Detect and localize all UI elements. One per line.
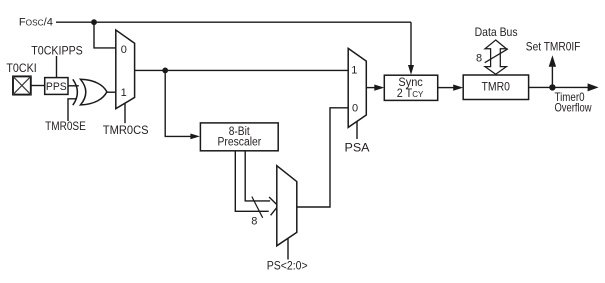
data bus double arrow [485, 40, 506, 74]
arrowhead into sync top [408, 65, 414, 75]
mux TMR0CS [116, 30, 135, 109]
box 8-bit prescaler [200, 123, 278, 151]
wire T0CKI pad to PPS [31, 85, 45, 87]
box PPS [45, 78, 68, 95]
wire Sync to TMR0 [438, 87, 454, 89]
mux PS [277, 166, 297, 246]
svg-text:PPS: PPS [46, 81, 67, 93]
junction dot Fosc [91, 19, 97, 25]
svg-text:Data Bus: Data Bus [475, 25, 518, 39]
arrowhead set TMR0IF up [549, 55, 556, 66]
junction dot mux1 output [162, 68, 168, 74]
bus slash 8 [252, 197, 263, 218]
pin pad T0CKI [13, 76, 31, 94]
arrowhead into TMR0 [453, 85, 463, 91]
open arrowhead bus into PS mux [269, 197, 278, 215]
wire Fosc junction down to mux input 0 [94, 22, 116, 48]
svg-text:Overflow: Overflow [555, 101, 592, 115]
wire PSA output to Sync [366, 87, 375, 89]
wire PS mux leader [287, 239, 289, 260]
wire PSA mux leader [356, 121, 358, 140]
svg-text:TMR0: TMR0 [482, 80, 511, 94]
wire mux TMR0CS leader [124, 102, 126, 124]
wire junction down to prescaler [165, 70, 190, 136]
svg-text:8: 8 [476, 53, 482, 65]
xor gate U1 [73, 79, 107, 105]
arrowhead timer0 overflow [588, 83, 599, 91]
svg-text:0: 0 [352, 103, 358, 115]
wire TMR0 output Timer0 overflow [529, 86, 589, 88]
svg-text:1: 1 [121, 87, 127, 99]
arrowhead into sync left [374, 85, 384, 91]
svg-text:FOSC/4: FOSC/4 [19, 17, 53, 29]
svg-text:TMR0CS: TMR0CS [103, 123, 149, 137]
svg-text:Prescaler: Prescaler [218, 136, 262, 148]
wire PS mux output to PSA mux input 0 [297, 108, 348, 207]
svg-text:0: 0 [121, 44, 127, 56]
mux PSA [348, 48, 366, 127]
svg-text:TMR0SE: TMR0SE [45, 119, 86, 133]
wire XOR output to mux input 1 [107, 91, 116, 93]
svg-text:Set TMR0IF: Set TMR0IF [526, 40, 581, 54]
svg-text:2 TCY: 2 TCY [397, 88, 424, 100]
wire Set TMR0IF up [551, 67, 553, 88]
wire Fosc/4 horizontal top [56, 21, 411, 23]
wire T0CKIPPS to PPS box [56, 56, 58, 78]
svg-text:PSA: PSA [345, 141, 370, 155]
svg-text:8: 8 [251, 215, 257, 227]
wire TMR0SE to XOR bottom input [68, 99, 76, 121]
svg-text:T0CKI: T0CKI [6, 61, 36, 75]
box TMR0 [463, 75, 528, 100]
svg-text:PS<2:0>: PS<2:0> [267, 259, 308, 273]
wire PPS to XOR top input [68, 85, 79, 87]
arrowhead into prescaler [190, 134, 200, 140]
wire sync top drop [410, 22, 412, 65]
data bus slash [485, 49, 508, 63]
wire mux1 output to PSA mux input 1 [135, 69, 349, 71]
junction dot Timer0 overflow [549, 84, 555, 90]
box Sync 2Tcy [384, 75, 437, 100]
wire prescaler out right line [245, 151, 270, 201]
wire prescaler out left line [235, 151, 268, 212]
svg-text:1: 1 [351, 64, 357, 76]
svg-text:T0CKIPPS: T0CKIPPS [31, 43, 83, 57]
